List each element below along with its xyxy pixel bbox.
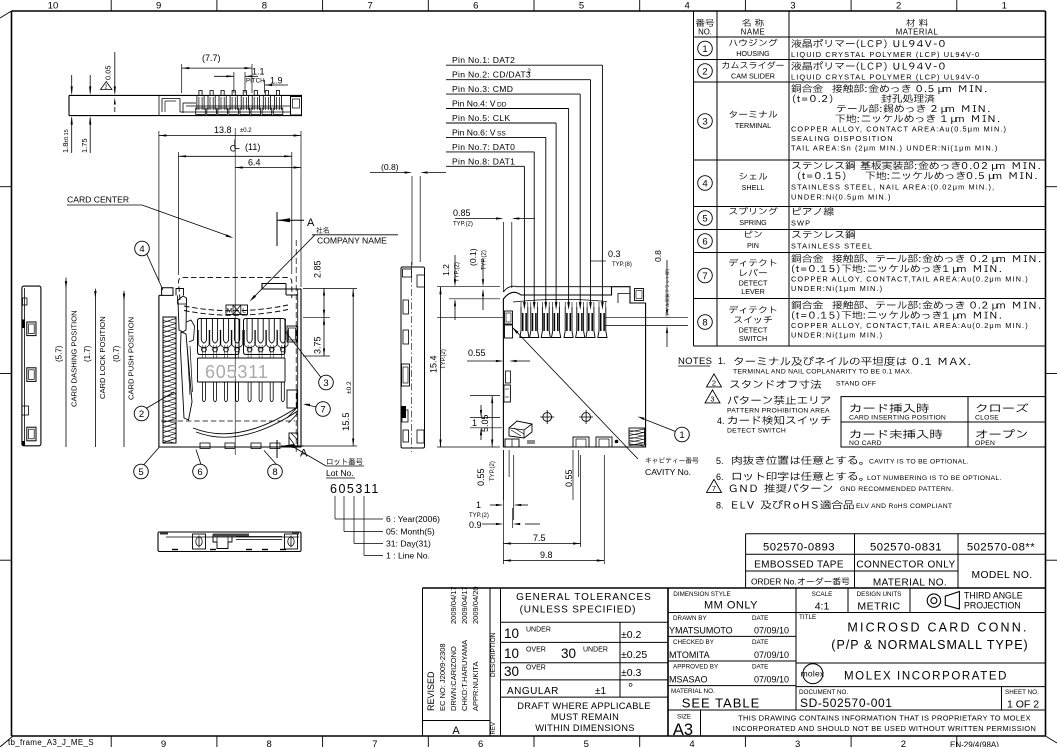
svg-text:4: 4	[139, 244, 144, 255]
right view left edge details	[505, 311, 513, 324]
svg-text:SCALE: SCALE	[812, 591, 833, 598]
svg-text:WITHIN DIMENSIONS: WITHIN DIMENSIONS	[535, 723, 635, 733]
right view pin baseline	[437, 316, 503, 318]
svg-text:SHEET NO.: SHEET NO.	[1005, 689, 1039, 696]
svg-text:TYP.(2): TYP.(2)	[490, 461, 496, 481]
svg-text:REVISED: REVISED	[426, 671, 436, 711]
company name logo box	[226, 305, 248, 315]
svg-text:LOT NUMBERING IS TO BE OPTIONA: LOT NUMBERING IS TO BE OPTIONAL.	[867, 475, 1002, 482]
sheet border frame	[12, 10, 1046, 12]
right view outline	[503, 287, 645, 447]
svg-text:1: 1	[1002, 1, 1007, 12]
svg-text:DD: DD	[497, 102, 507, 109]
card bottom curve dashed	[184, 305, 288, 311]
svg-text:10: 10	[48, 1, 59, 12]
part number table	[746, 533, 1046, 535]
title block grid	[668, 587, 1046, 589]
svg-text:±0.15: ±0.15	[64, 129, 70, 143]
svg-text:SEE TABLE: SEE TABLE	[682, 696, 761, 711]
terminal carrier band	[198, 357, 286, 359]
svg-text:ANGULAR: ANGULAR	[507, 686, 559, 697]
svg-text:APPROVED BY: APPROVED BY	[673, 664, 719, 671]
svg-text:2009/04/17: 2009/04/17	[449, 586, 458, 624]
svg-text:8: 8	[702, 317, 707, 328]
svg-text:1.: 1.	[718, 356, 726, 366]
svg-text:SPRING: SPRING	[739, 218, 767, 227]
svg-text:6.: 6.	[716, 472, 724, 482]
row 5 spring	[698, 211, 713, 226]
svg-text:MATERIAL: MATERIAL	[896, 28, 939, 37]
lot number legend	[334, 496, 336, 519]
svg-text:1 : Line No.: 1 : Line No.	[386, 551, 430, 561]
svg-text:CARD LOCK POSITION: CARD LOCK POSITION	[98, 316, 107, 399]
svg-text:2: 2	[901, 739, 906, 747]
row 1 housing	[698, 41, 713, 56]
bottom view bottom ticks	[172, 549, 178, 551]
left side view windows	[27, 322, 36, 336]
svg-text:EN-29/4(98A): EN-29/4(98A)	[950, 741, 999, 747]
svg-text:5.05: 5.05	[480, 414, 490, 432]
svg-text:2: 2	[712, 378, 716, 387]
row 8 detect switch	[698, 315, 713, 330]
lot number label	[327, 458, 363, 465]
company name label	[316, 227, 329, 234]
mid side view outline	[401, 267, 425, 448]
bottom profile view outline	[158, 532, 301, 552]
svg-text:PATTERN PROHIBITION AREA: PATTERN PROHIBITION AREA	[727, 408, 830, 415]
svg-text:CAVITY IS TO BE OPTIONAL.: CAVITY IS TO BE OPTIONAL.	[869, 459, 969, 466]
svg-text:4.: 4.	[717, 416, 725, 426]
svg-text:DATE: DATE	[752, 615, 768, 622]
svg-text:OVER: OVER	[526, 647, 546, 654]
svg-text:MICROSD CARD CONN.: MICROSD CARD CONN.	[847, 621, 1028, 635]
svg-text:DOCUMENT NO.: DOCUMENT NO.	[799, 689, 848, 696]
right view pins	[598, 307, 600, 331]
svg-text:(0.7): (0.7)	[112, 345, 121, 362]
bottom view hatch strip	[213, 534, 249, 537]
svg-text:COPPER ALLOY, CONTACT AREA:Au(: COPPER ALLOY, CONTACT AREA:Au(0.5μm MIN.…	[791, 125, 1007, 134]
svg-text:15.4: 15.4	[429, 355, 439, 373]
svg-text:9: 9	[156, 1, 161, 12]
balloon 6	[193, 464, 208, 479]
svg-text:CONNECTOR ONLY: CONNECTOR ONLY	[856, 560, 955, 571]
svg-text:2009/04/20: 2009/04/20	[471, 586, 480, 624]
frame column ticks bottom	[110, 736, 112, 747]
svg-text:30: 30	[504, 664, 519, 679]
balloon 7	[316, 402, 331, 417]
svg-text:DETECT SWITCH: DETECT SWITCH	[727, 428, 786, 435]
svg-text:2.85: 2.85	[313, 260, 323, 278]
svg-text:2: 2	[896, 1, 901, 12]
svg-text:molex: molex	[801, 669, 825, 679]
left side view outline	[22, 286, 41, 446]
svg-text:CHKD:T.HARUYAMA: CHKD:T.HARUYAMA	[460, 640, 469, 711]
svg-text:4:1: 4:1	[815, 601, 830, 613]
svg-text:8: 8	[262, 1, 267, 12]
terminal group 1 outline	[198, 319, 240, 355]
section arrow A top	[276, 212, 278, 246]
svg-text:30: 30	[561, 646, 576, 661]
svg-text:6.4: 6.4	[248, 158, 261, 168]
svg-text:1: 1	[679, 430, 684, 441]
svg-text:4: 4	[702, 178, 707, 189]
svg-text:MATERIAL NO.: MATERIAL NO.	[873, 578, 947, 589]
svg-text:8: 8	[272, 467, 277, 478]
svg-text:05: Month(5): 05: Month(5)	[386, 527, 435, 537]
svg-text:PITCH: PITCH	[246, 78, 265, 85]
svg-text:TERMINAL AND NAIL COPLANARITY: TERMINAL AND NAIL COPLANARITY TO BE 0.1 …	[733, 369, 912, 376]
svg-text:DRWN:CARIZONO: DRWN:CARIZONO	[449, 646, 458, 711]
svg-text:MODEL NO.: MODEL NO.	[971, 570, 1032, 581]
svg-text:502570-0893: 502570-0893	[763, 542, 835, 554]
svg-text:1.1: 1.1	[252, 67, 265, 77]
top profile view outline	[69, 94, 302, 96]
svg-text:DESIGN UNITS: DESIGN UNITS	[857, 591, 902, 598]
svg-text:(7.7): (7.7)	[202, 53, 221, 63]
balloon 3	[319, 375, 334, 390]
svg-text:502570-0831: 502570-0831	[870, 542, 942, 554]
svg-text:UNDER:Ni(1μm MIN.): UNDER:Ni(1μm MIN.)	[791, 331, 883, 340]
svg-text:TITLE: TITLE	[799, 614, 816, 621]
svg-text:MUST REMAIN: MUST REMAIN	[551, 712, 619, 722]
svg-text:07/09/10: 07/09/10	[754, 675, 789, 685]
shell right edge details	[287, 326, 297, 342]
svg-text:6: 6	[197, 467, 202, 478]
svg-text:3: 3	[795, 739, 800, 747]
card position table	[841, 397, 1046, 447]
svg-text:L: L	[242, 308, 246, 315]
svg-text:TYP.(8): TYP.(8)	[612, 262, 632, 268]
svg-text:(UNLESS SPECIFIED): (UNLESS SPECIFIED)	[520, 605, 637, 616]
svg-text:8: 8	[267, 739, 272, 747]
right view bottom feet	[505, 439, 519, 447]
svg-text:5: 5	[702, 213, 707, 224]
note 2	[707, 374, 722, 387]
svg-text:2: 2	[139, 409, 144, 420]
svg-text:(0.8): (0.8)	[381, 162, 399, 172]
left side view details	[23, 298, 28, 305]
svg-text:±0.2: ±0.2	[621, 629, 642, 641]
svg-text:INCORPORATED AND SHOULD NOT BE: INCORPORATED AND SHOULD NOT BE USED WITH…	[733, 724, 1036, 733]
svg-text:0.3: 0.3	[608, 249, 621, 259]
svg-text:0.05: 0.05	[104, 65, 113, 80]
cam lever arm	[178, 296, 187, 332]
card position dims 5.7 1.7 0.7	[65, 278, 67, 447]
svg-text:(0.1): (0.1)	[468, 248, 478, 266]
svg-text:±0.3: ±0.3	[621, 667, 642, 679]
dim 15.4 right view	[440, 287, 442, 447]
svg-text:M: M	[227, 308, 232, 315]
svg-text:0.9: 0.9	[469, 520, 482, 530]
svg-text:3.75: 3.75	[313, 336, 323, 354]
svg-text:YMATSUMOTO: YMATSUMOTO	[669, 626, 733, 636]
svg-text:1.8: 1.8	[61, 143, 70, 153]
cavity number label	[646, 457, 699, 463]
svg-text:13.8: 13.8	[214, 125, 232, 135]
svg-text:MATERIAL NO.: MATERIAL NO.	[671, 688, 715, 695]
svg-text:STAND OFF: STAND OFF	[836, 381, 876, 388]
svg-text:DRAWN BY: DRAWN BY	[673, 615, 708, 622]
shell top-left latch detail	[176, 289, 184, 296]
svg-text:1: 1	[702, 44, 707, 55]
svg-text:6 : Year(2006): 6 : Year(2006)	[386, 514, 440, 524]
main view bottom feet	[200, 443, 210, 449]
svg-text:tb_frame_A3_J_ME_S: tb_frame_A3_J_ME_S	[8, 738, 94, 747]
svg-text:2: 2	[105, 85, 108, 91]
spring coil hatch	[163, 317, 176, 443]
svg-text:4: 4	[685, 1, 690, 12]
svg-text:COMPANY NAME: COMPANY NAME	[317, 236, 387, 246]
svg-text:Pin No.5: CLK: Pin No.5: CLK	[452, 113, 510, 123]
svg-text:1 OF 2: 1 OF 2	[1007, 699, 1039, 711]
svg-text:0.55: 0.55	[564, 469, 574, 487]
right view spring hatch	[629, 428, 645, 445]
balloon 1	[675, 427, 690, 442]
balloon 4	[135, 241, 150, 256]
svg-text:TERMINAL: TERMINAL	[735, 121, 771, 130]
svg-text:MTOMITA: MTOMITA	[669, 650, 710, 660]
svg-text:±0.2: ±0.2	[346, 381, 353, 394]
svg-text:Pin No.8: DAT1: Pin No.8: DAT1	[452, 156, 515, 166]
balloon 2	[134, 406, 149, 421]
balloon 8	[268, 464, 283, 479]
svg-text:Pin No.7: DAT0: Pin No.7: DAT0	[452, 142, 515, 152]
svg-text:Pin No.3: CMD: Pin No.3: CMD	[452, 84, 513, 94]
svg-text:PIN: PIN	[747, 241, 759, 250]
dim 1.75	[89, 75, 91, 93]
svg-text:CAVITY No.: CAVITY No.	[645, 467, 691, 477]
svg-text:(1.7): (1.7)	[83, 345, 92, 362]
svg-text:Lot No.: Lot No.	[326, 468, 354, 478]
svg-text:UNDER:Ni(1μm MIN.): UNDER:Ni(1μm MIN.)	[791, 284, 883, 293]
svg-text:502570-08**: 502570-08**	[967, 542, 1035, 554]
dim 2.85	[323, 288, 325, 317]
svg-text:Pin No.1: DAT2: Pin No.1: DAT2	[452, 55, 515, 65]
svg-text:COPPER ALLOY, CONTACT,TAIL ARE: COPPER ALLOY, CONTACT,TAIL AREA:Au(0.2μm…	[791, 275, 1029, 284]
svg-text:10: 10	[504, 646, 519, 661]
svg-text:COPPER ALLOY, CONTACT,TAIL ARE: COPPER ALLOY, CONTACT,TAIL AREA:Au(0.2μm…	[791, 321, 1029, 330]
svg-text:7: 7	[372, 739, 377, 747]
revision block grid	[423, 587, 669, 589]
svg-text:HOUSING: HOUSING	[736, 49, 770, 58]
svg-text:8.: 8.	[716, 501, 724, 511]
svg-text:5: 5	[579, 1, 584, 12]
row 4 shell	[698, 176, 713, 191]
svg-text:4: 4	[689, 739, 694, 747]
material table grid	[694, 10, 1046, 12]
top view right cap	[291, 97, 302, 116]
right view top right notch	[618, 294, 630, 304]
svg-text:2009/04/17: 2009/04/17	[460, 586, 469, 624]
svg-text:A: A	[452, 725, 460, 737]
svg-text:2: 2	[702, 66, 707, 77]
row 7 detect lever	[698, 268, 713, 283]
svg-text:3: 3	[790, 1, 795, 12]
svg-text:0.8: 0.8	[653, 250, 663, 262]
main view shell outline	[159, 284, 301, 448]
svg-text:TYP.(2): TYP.(2)	[469, 513, 489, 519]
svg-text:5.: 5.	[716, 456, 724, 466]
svg-text:9.8: 9.8	[540, 550, 553, 560]
note 7	[707, 479, 722, 492]
svg-text:7: 7	[712, 484, 716, 493]
svg-text:EMBOSSED TAPE: EMBOSSED TAPE	[754, 560, 844, 571]
frame column ticks top	[110, 0, 112, 11]
svg-text:5: 5	[584, 739, 589, 747]
svg-text:UNDER: UNDER	[526, 627, 551, 634]
svg-text:LIQUID CRYSTAL POLYMER (LCP) U: LIQUID CRYSTAL POLYMER (LCP) UL94V-0	[791, 73, 980, 82]
svg-text:A3: A3	[673, 721, 693, 739]
svg-text:NAME: NAME	[741, 28, 766, 37]
svg-text:NO CARD: NO CARD	[849, 440, 882, 447]
svg-text:CARD INSERTING POSITION: CARD INSERTING POSITION	[849, 414, 946, 421]
svg-text:DIMENSION STYLE: DIMENSION STYLE	[673, 591, 730, 598]
svg-text:SHELL: SHELL	[742, 183, 765, 192]
svg-text:1: 1	[476, 500, 481, 510]
svg-text:07/09/10: 07/09/10	[754, 626, 789, 636]
svg-text:DRAFT WHERE APPLICABLE: DRAFT WHERE APPLICABLE	[517, 701, 651, 711]
dim 1.8	[71, 75, 73, 93]
svg-text:GENERAL TOLERANCES: GENERAL TOLERANCES	[516, 592, 652, 603]
detect lever curve	[193, 408, 296, 434]
svg-text:THIRD ANGLE: THIRD ANGLE	[964, 591, 1023, 601]
svg-text:±1: ±1	[595, 686, 606, 697]
svg-text:NOTES: NOTES	[678, 356, 712, 367]
section line A-A	[295, 240, 297, 452]
svg-text:SWP: SWP	[791, 219, 811, 228]
section arrow A bottom	[276, 440, 278, 458]
material table header	[696, 19, 714, 27]
terminal group 2 outline	[244, 319, 286, 355]
svg-text:STAINLESS STEEL, NAIL AREA:(0.: STAINLESS STEEL, NAIL AREA:(0.02μm MIN.)…	[791, 183, 995, 192]
svg-text:OPEN: OPEN	[975, 440, 995, 447]
svg-text:605311: 605311	[330, 482, 380, 496]
svg-text:7: 7	[320, 404, 325, 415]
svg-text:MSASAO: MSASAO	[669, 675, 708, 685]
svg-text:THIS DRAWING CONTAINS INFORMAT: THIS DRAWING CONTAINS INFORMATION THAT I…	[738, 714, 1031, 723]
svg-text:DATE: DATE	[752, 639, 768, 646]
svg-text:REV: REV	[491, 722, 497, 734]
svg-text:3: 3	[710, 394, 714, 403]
cavity leader diagonal	[512, 327, 638, 459]
svg-text:10: 10	[504, 626, 519, 641]
svg-text:1.2: 1.2	[441, 264, 451, 276]
balloon 5	[134, 464, 149, 479]
general tolerances table	[501, 621, 669, 623]
svg-text:7.5: 7.5	[533, 533, 546, 543]
svg-text:(11): (11)	[245, 142, 260, 152]
svg-text:MOLEX INCORPORATED: MOLEX INCORPORATED	[844, 671, 1008, 683]
top view base details	[162, 98, 180, 100]
svg-text:Pin No.2: CD/DAT3: Pin No.2: CD/DAT3	[452, 70, 531, 80]
row 6 pin	[698, 234, 713, 249]
svg-text:DATE: DATE	[752, 664, 768, 671]
terminal tails	[201, 382, 203, 400]
svg-text:0.55: 0.55	[468, 348, 486, 358]
svg-text:605311: 605311	[205, 362, 269, 382]
terminal teeth	[200, 319, 202, 341]
card lock dashed line	[161, 420, 295, 422]
svg-text:CAM SLIDER: CAM SLIDER	[731, 72, 775, 81]
svg-text:15.5: 15.5	[341, 413, 352, 432]
row 2 cam slider	[698, 64, 713, 79]
svg-text:UNDER:Ni(0.5μm MIN.): UNDER:Ni(0.5μm MIN.)	[791, 193, 892, 202]
svg-text:CHECKED BY: CHECKED BY	[673, 639, 715, 646]
svg-text:(5.7): (5.7)	[55, 345, 64, 362]
svg-text:±0.2: ±0.2	[240, 128, 252, 134]
svg-text:CARD PUSH POSITION: CARD PUSH POSITION	[127, 317, 136, 400]
svg-text:Pin No.6: V: Pin No.6: V	[452, 127, 496, 137]
svg-text:MM ONLY: MM ONLY	[704, 600, 758, 612]
svg-text:3: 3	[323, 378, 328, 389]
svg-text:EC NO: J2009-2308: EC NO: J2009-2308	[438, 643, 447, 711]
svg-text:0.55: 0.55	[476, 468, 486, 486]
note 3	[705, 390, 720, 403]
svg-text:TYP.(2): TYP.(2)	[441, 349, 447, 369]
bottom view left screws	[193, 534, 206, 549]
svg-text:3: 3	[702, 116, 707, 127]
svg-text:9: 9	[161, 739, 166, 747]
svg-text:CARD DASHING POSITION: CARD DASHING POSITION	[70, 310, 79, 407]
svg-text:LEVER: LEVER	[741, 287, 765, 296]
svg-text:SWITCH: SWITCH	[739, 334, 767, 343]
svg-text:A: A	[307, 217, 315, 229]
row 3 terminal	[698, 114, 713, 129]
dim 5.05	[491, 396, 493, 447]
svg-text:SIZE: SIZE	[677, 714, 691, 721]
frame label bottom-left	[0, 736, 13, 747]
svg-text:7: 7	[367, 1, 372, 12]
svg-text:1.75: 1.75	[80, 138, 89, 153]
svg-text:0.85: 0.85	[453, 208, 471, 218]
right view crosses	[543, 413, 552, 422]
svg-text:SD-502570-001: SD-502570-001	[800, 696, 893, 710]
svg-text:CLOSE: CLOSE	[975, 414, 999, 421]
dim 15.5	[352, 289, 354, 446]
mid side view details	[403, 269, 412, 277]
svg-text:METRIC: METRIC	[857, 601, 900, 613]
svg-text:31: Day(31): 31: Day(31)	[386, 539, 431, 549]
svg-text:APPR:NUKITA: APPR:NUKITA	[471, 662, 480, 711]
svg-text:LIQUID CRYSTAL POLYMER (LCP) U: LIQUID CRYSTAL POLYMER (LCP) UL94V-0	[791, 50, 980, 59]
frame corner diagonals	[0, 11, 12, 18]
svg-text:UNDER: UNDER	[583, 647, 608, 654]
bottom view middle cutout	[213, 534, 232, 549]
svg-text:±0.25: ±0.25	[621, 649, 647, 661]
svg-text:TYP.(2): TYP.(2)	[482, 250, 488, 270]
frame row ticks	[0, 186, 12, 188]
svg-text:07/09/10: 07/09/10	[754, 650, 789, 660]
svg-text:1: 1	[472, 418, 477, 428]
svg-text:ORDER No.: ORDER No.	[751, 577, 797, 587]
svg-text:5: 5	[138, 467, 143, 478]
svg-text:TYP.(2): TYP.(2)	[453, 222, 473, 228]
svg-text:(P/P & NORMALSMALL TYPE): (P/P & NORMALSMALL TYPE)	[831, 638, 1028, 652]
svg-text:CARD CENTER: CARD CENTER	[67, 195, 129, 205]
molex logo	[803, 664, 823, 684]
svg-text:TAIL AREA:Sn (2μm MIN.) UNDER:: TAIL AREA:Sn (2μm MIN.) UNDER:Ni(1μm MIN…	[791, 144, 998, 153]
svg-text:7: 7	[702, 271, 707, 282]
svg-text:Pin No.4: V: Pin No.4: V	[452, 99, 496, 109]
svg-text:GND RECOMMENDED PATTERN.: GND RECOMMENDED PATTERN.	[840, 486, 953, 493]
flatness note 0.05	[114, 52, 116, 93]
svg-text:6: 6	[702, 236, 707, 247]
svg-text:6: 6	[478, 739, 483, 747]
svg-text:SS: SS	[497, 130, 506, 137]
card outline dashed	[179, 278, 292, 300]
right view detect switch corner	[509, 421, 532, 438]
svg-text:DESCRIPTION: DESCRIPTION	[490, 632, 497, 677]
